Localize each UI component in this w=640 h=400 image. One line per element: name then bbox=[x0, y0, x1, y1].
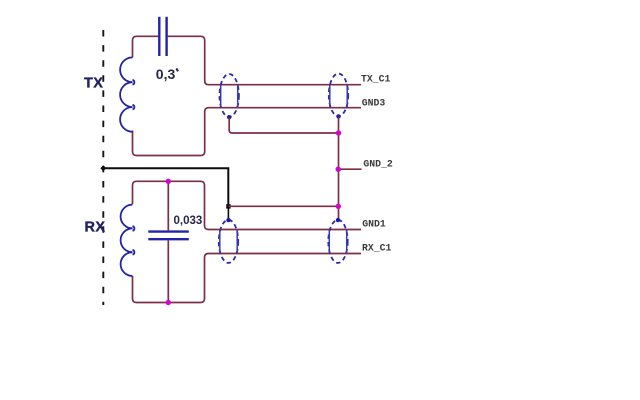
node magenta shield bus bottom bbox=[336, 204, 341, 209]
capacitor TX plate right bbox=[165, 17, 167, 56]
pin TX left b bbox=[237, 85, 239, 108]
wire GND_2 stub bbox=[339, 168, 362, 170]
wire shield TX left to bus bbox=[229, 117, 338, 133]
connector ellipse RX left bbox=[219, 220, 238, 263]
pin RX right b bbox=[346, 230, 348, 254]
svg-text:GND3: GND3 bbox=[362, 98, 386, 109]
pin TX right a bbox=[329, 85, 331, 108]
wire RX middle branch lower bbox=[167, 240, 169, 302]
svg-text:TX_C1: TX_C1 bbox=[361, 73, 391, 84]
svg-text:0,033: 0,033 bbox=[174, 215, 203, 227]
wire shield bus vertical bbox=[338, 116, 340, 219]
wire RX middle branch upper bbox=[167, 181, 169, 230]
node diamond at dashed line bbox=[100, 165, 106, 171]
pin RX left a bbox=[219, 230, 221, 254]
capacitor TX plate left bbox=[158, 17, 160, 56]
wire black junction to RX shield dot bbox=[227, 206, 229, 220]
node dot TX left shield bbox=[227, 115, 231, 119]
inductor RX (coil) bbox=[121, 205, 135, 276]
svg-text:GND1: GND1 bbox=[362, 219, 386, 230]
inductor TX (coil) bbox=[120, 57, 134, 131]
wire RX loop top to GND1 bbox=[133, 181, 362, 229]
svg-text:RX_C1: RX_C1 bbox=[362, 243, 392, 254]
wire black ground link bbox=[103, 168, 228, 206]
node dot TX right shield bbox=[336, 114, 340, 118]
node dot RX left shield bbox=[226, 218, 230, 222]
dashed boundary line bbox=[102, 30, 104, 305]
connector ellipse TX left bbox=[220, 74, 239, 117]
node dot RX right shield bbox=[336, 218, 340, 222]
svg-text:TX: TX bbox=[84, 75, 103, 91]
svg-text:0,3: 0,3 bbox=[156, 66, 176, 82]
node magenta RX cap top bbox=[166, 179, 171, 184]
pin RX left b bbox=[236, 230, 238, 254]
wire TX loop top and right to TX_C1 bbox=[133, 36, 362, 84]
node magenta GND_2 bbox=[336, 167, 341, 172]
wire RX_C1 to RX loop bottom bbox=[133, 254, 362, 303]
connector ellipse TX right bbox=[329, 74, 348, 117]
connector ellipse RX right bbox=[328, 220, 347, 263]
node square black junction bbox=[226, 204, 230, 208]
pin TX right b bbox=[346, 85, 348, 108]
wire GND3 to TX loop bottom bbox=[133, 108, 362, 156]
capacitor RX plate bottom bbox=[148, 238, 189, 240]
pin TX left a bbox=[220, 85, 222, 108]
svg-text:GND_2: GND_2 bbox=[363, 158, 393, 169]
wire RX shield horizontal bbox=[228, 205, 338, 207]
node magenta shield bus top bbox=[336, 130, 341, 135]
capacitor RX plate top bbox=[148, 230, 189, 232]
svg-text:RX: RX bbox=[85, 220, 106, 236]
pin RX right a bbox=[328, 230, 330, 254]
node magenta RX cap bottom bbox=[166, 300, 171, 305]
